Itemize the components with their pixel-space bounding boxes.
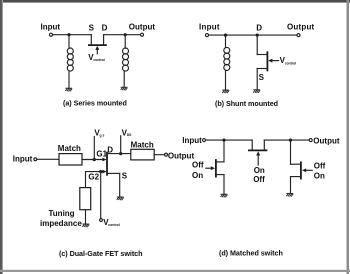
svg-text:Input: Input: [199, 22, 220, 31]
svg-text:Output: Output: [168, 151, 195, 160]
svg-text:Tuning: Tuning: [49, 209, 75, 218]
svg-text:Input: Input: [41, 22, 61, 31]
svg-text:Off: Off: [192, 161, 204, 170]
svg-text:Match: Match: [58, 144, 81, 153]
svg-text:S: S: [122, 171, 128, 180]
svg-text:S: S: [89, 23, 95, 32]
svg-text:D: D: [102, 23, 108, 32]
svg-text:D: D: [256, 23, 262, 32]
svg-text:On: On: [254, 166, 265, 175]
svg-text:Off: Off: [253, 175, 265, 184]
svg-text:G1: G1: [96, 150, 107, 159]
svg-text:(d) Matched switch: (d) Matched switch: [219, 249, 283, 258]
svg-text:Output: Output: [313, 136, 340, 145]
svg-text:Input: Input: [182, 136, 202, 145]
svg-text:On: On: [314, 171, 325, 180]
svg-text:DS: DS: [127, 133, 132, 137]
svg-text:On: On: [192, 171, 203, 180]
svg-text:(c) Dual-Gate FET switch: (c) Dual-Gate FET switch: [59, 249, 142, 258]
svg-text:control: control: [108, 223, 120, 227]
svg-text:(b) Shunt mounted: (b) Shunt mounted: [215, 99, 278, 108]
svg-text:S: S: [259, 73, 265, 82]
svg-text:G2: G2: [88, 172, 99, 181]
svg-text:Match: Match: [131, 141, 154, 150]
svg-text:Output: Output: [129, 22, 156, 31]
svg-text:Output: Output: [287, 22, 315, 31]
svg-text:control: control: [93, 58, 105, 62]
svg-text:(a) Series mounted: (a) Series mounted: [63, 99, 127, 108]
svg-text:Off: Off: [314, 161, 326, 170]
svg-text:control: control: [285, 61, 297, 65]
svg-text:g s: g s: [100, 134, 105, 138]
svg-text:impedance: impedance: [40, 219, 82, 228]
svg-text:Input: Input: [13, 155, 33, 164]
